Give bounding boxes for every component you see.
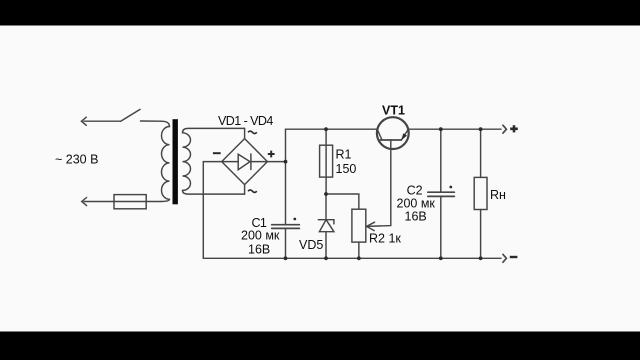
node: Rn top on rail [479,127,483,131]
zener VD5 triangle [319,220,334,232]
node: bridge+ / main vertical [284,160,288,164]
svg-text:150: 150 [336,162,357,176]
load resistor Rn body [474,177,487,209]
wire: R2 wiper to VT1 base [367,140,391,226]
arrow: bottom-left mains terminal [82,198,87,206]
wire: R1 bottom node to R2 top [326,194,359,209]
bridge internal diode triangle [238,154,250,170]
node: Rn on bottom rail [479,256,483,260]
wire: main vertical node (bridge + / C1 / top rail) [285,129,287,258]
wire: bridge minus output to bottom rail [203,162,221,259]
svg-text:VD5: VD5 [299,238,323,252]
svg-text:Rн: Rн [490,188,506,202]
zener VD5 cathode bar with tail [318,220,334,224]
svg-text:~ 230 В: ~ 230 В [55,153,98,167]
wire: R2 bottom lead [358,242,360,258]
bridge polarity marks [213,125,518,257]
node: R1 bottom / VD5 / R2 branch [324,192,328,196]
C2 polarity mark [449,186,452,189]
bridge internal diode cathode [250,154,252,170]
bridge minus mark [213,152,221,154]
transformer T1 secondary winding [183,128,245,194]
node: VD5 on bottom rail [324,256,328,260]
svg-text:16В: 16В [405,210,427,224]
R2 wiper open arrowhead [367,222,375,230]
node: C2 on bottom rail [439,256,443,260]
wire: switch to transformer [141,120,162,122]
bridge plus mark [268,151,275,158]
wire: bridge plus output [267,161,285,163]
arrow: + output terminal [503,125,507,133]
transistor VT1 circle [377,117,409,149]
wire: secondary bottom to bridge ~ input [244,185,246,195]
switch SA blade [121,109,140,121]
C1 polarity mark [293,218,296,221]
bottom rail [203,257,501,259]
svg-text:C2: C2 [407,184,423,198]
bridge rectifier VD1-VD4 diamond [222,139,268,185]
svg-text:200 мк: 200 мк [397,197,436,211]
transistor VT1 emitter diagonal [401,129,408,140]
svg-text:VT1: VT1 [382,104,405,118]
load resistor Rn leads [480,129,482,258]
arrow: top-left mains terminal [81,117,86,125]
top rail right of VT1 [409,128,501,130]
svg-text:R1: R1 [336,148,352,162]
capacitor C2 plates [428,192,455,196]
wire: bottom-left mains lead [84,201,161,203]
bridge internal diode bar line [222,161,268,163]
bridge top ~ mark [248,131,257,134]
svg-text:200 мк: 200 мк [241,229,280,243]
svg-text:R2 1к: R2 1к [369,232,401,246]
svg-text:16В: 16В [248,243,270,257]
transformer T1 primary winding [161,121,170,201]
zener diode VD5 leads [325,194,327,258]
resistor R1 body [320,145,333,177]
bridge bottom ~ mark [248,190,257,193]
junction dots [284,127,483,260]
transistor VT1 collector diagonal [377,129,382,140]
fuse FU1 [114,195,146,209]
output minus mark [510,256,518,258]
capacitor C1 plates [272,225,300,229]
node: R1 top on rail [324,127,328,131]
wire: secondary top to bridge ~ input [244,128,246,138]
node: R2 on bottom rail [357,256,361,260]
potentiometer R2 body [352,209,366,242]
node: C1 on bottom rail [284,256,288,260]
svg-text:VD1 - VD4: VD1 - VD4 [218,114,273,128]
transformer T1 core [173,119,178,204]
resistor R1 lead (continuous through body) [325,129,327,194]
capacitor C2 leads [440,129,442,258]
transistor VT1 base bar [380,139,401,141]
node: C2 top on rail [439,127,443,131]
wire: top-left mains lead [84,120,121,122]
arrow: - output terminal [503,254,507,262]
VT1 emitter arrowhead [401,133,407,140]
output plus mark [510,125,518,132]
top rail left of VT1 [286,128,377,130]
